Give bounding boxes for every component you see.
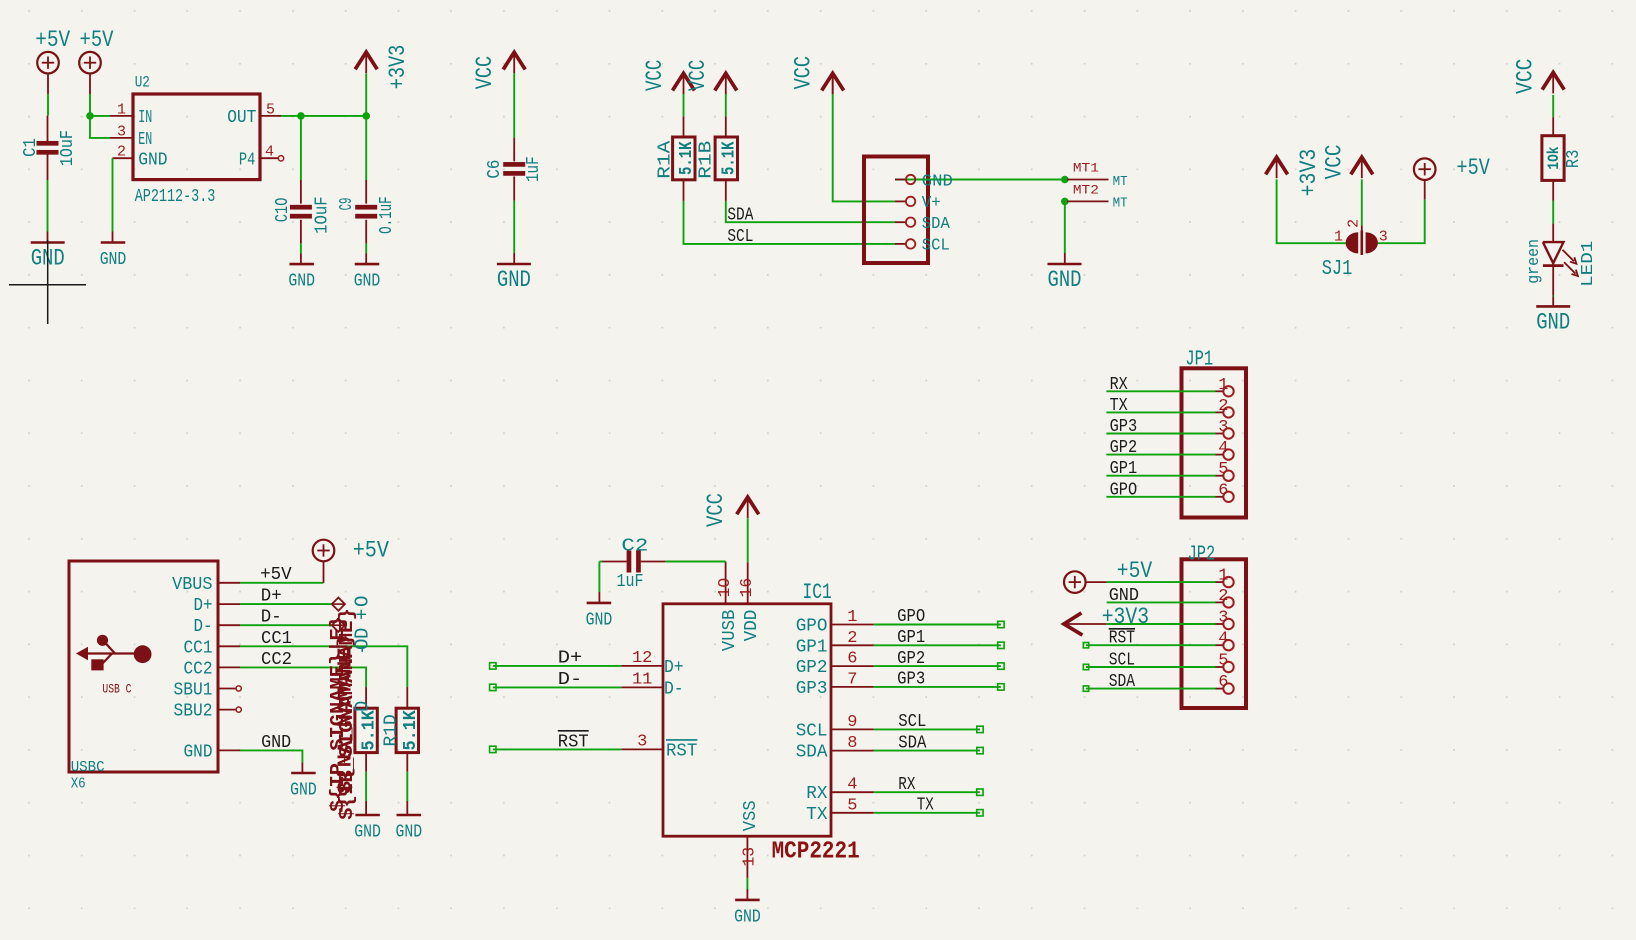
- svg-text:3: 3: [637, 732, 647, 751]
- svg-text:SDA: SDA: [1109, 672, 1135, 692]
- svg-text:GND: GND: [396, 823, 423, 843]
- svg-text:RX: RX: [898, 775, 915, 795]
- svg-text:2: 2: [117, 144, 126, 161]
- svg-text:13: 13: [741, 847, 760, 867]
- svg-text:R1A: R1A: [656, 140, 676, 178]
- svg-text:D-: D-: [664, 679, 684, 699]
- svg-text:3: 3: [1218, 609, 1228, 628]
- svg-text:C9: C9: [337, 198, 357, 211]
- svg-text:11: 11: [632, 670, 652, 689]
- svg-text:+5V: +5V: [1117, 558, 1153, 584]
- svg-text:+3V3: +3V3: [1102, 604, 1149, 630]
- svg-text:SCL: SCL: [922, 237, 950, 256]
- svg-text:MT: MT: [1113, 174, 1128, 190]
- svg-text:AP2112-3.3: AP2112-3.3: [135, 187, 216, 207]
- svg-text:RX: RX: [1110, 375, 1128, 395]
- svg-text:3: 3: [1218, 418, 1228, 437]
- svg-text:X6: X6: [71, 776, 86, 793]
- svg-text:SBU1: SBU1: [174, 681, 213, 701]
- svg-text:+3V3: +3V3: [385, 45, 411, 90]
- svg-text:1: 1: [847, 608, 857, 627]
- svg-text:CC2: CC2: [261, 650, 292, 670]
- svg-text:1: 1: [1334, 229, 1343, 246]
- svg-text:SJ1: SJ1: [1322, 258, 1353, 281]
- svg-text:GND: GND: [138, 150, 167, 170]
- svg-text:USB C: USB C: [102, 682, 131, 697]
- svg-text:2: 2: [1218, 397, 1228, 416]
- svg-text:D+: D+: [194, 596, 213, 616]
- svg-text:IN: IN: [138, 108, 152, 128]
- svg-text:1OuF: 1OuF: [313, 196, 333, 234]
- svg-text:JP1: JP1: [1185, 349, 1213, 372]
- svg-text:GP3: GP3: [796, 679, 828, 699]
- svg-text:+5V: +5V: [80, 27, 114, 53]
- svg-text:VDD: VDD: [742, 610, 762, 642]
- svg-text:VCC: VCC: [1322, 144, 1348, 179]
- svg-text:SCL: SCL: [1109, 650, 1135, 670]
- svg-text:RST: RST: [558, 732, 589, 752]
- svg-text:VCC: VCC: [642, 60, 668, 91]
- svg-text:USBC: USBC: [71, 759, 105, 776]
- svg-text:GPO: GPO: [796, 617, 828, 637]
- svg-text:C1O: C1O: [273, 198, 293, 223]
- svg-text:8: 8: [847, 734, 857, 753]
- svg-text:JP2: JP2: [1188, 544, 1216, 567]
- svg-text:D: D: [352, 701, 374, 712]
- svg-text:2: 2: [1218, 587, 1228, 606]
- svg-text:3: 3: [1379, 229, 1388, 246]
- svg-text:RX: RX: [806, 784, 827, 804]
- svg-text:P4: P4: [239, 150, 255, 170]
- svg-text:5: 5: [1218, 460, 1228, 479]
- svg-text:VCC: VCC: [790, 56, 816, 90]
- svg-text:GP3: GP3: [897, 670, 925, 690]
- svg-text:${NA_NAMANE}: ${NA_NAMANE}: [335, 634, 357, 794]
- svg-text:SDA: SDA: [796, 743, 828, 763]
- svg-text:GND: GND: [261, 733, 291, 753]
- svg-text:1: 1: [117, 101, 126, 118]
- svg-text:+: +: [352, 609, 374, 620]
- svg-text:OUT: OUT: [227, 108, 256, 128]
- svg-text:CC1: CC1: [261, 629, 292, 649]
- svg-text:R3: R3: [1564, 150, 1584, 169]
- svg-text:1uF: 1uF: [524, 156, 544, 182]
- svg-text:1: 1: [1218, 376, 1228, 395]
- svg-text:5: 5: [847, 796, 857, 815]
- svg-text:GP2: GP2: [796, 658, 828, 678]
- svg-text:VSS: VSS: [741, 800, 761, 831]
- svg-text:SCL: SCL: [898, 712, 926, 732]
- svg-text:SBU2: SBU2: [174, 702, 213, 722]
- svg-text:GP1: GP1: [1110, 459, 1138, 479]
- svg-text:GP1: GP1: [796, 637, 828, 657]
- svg-text:+5V: +5V: [353, 537, 389, 563]
- svg-text:VCC: VCC: [685, 60, 711, 91]
- svg-text:GND: GND: [922, 172, 953, 191]
- svg-text:1Ok: 1Ok: [1545, 146, 1563, 169]
- svg-text:MT: MT: [1113, 196, 1128, 212]
- svg-text:C6: C6: [485, 160, 505, 179]
- svg-text:VUSB: VUSB: [720, 609, 740, 651]
- svg-text:D: D: [352, 628, 374, 639]
- svg-text:4: 4: [1218, 439, 1228, 458]
- svg-text:VCC: VCC: [472, 56, 498, 90]
- svg-text:GND: GND: [354, 272, 381, 292]
- svg-text:GND: GND: [100, 250, 127, 270]
- svg-text:5.1K: 5.1K: [401, 710, 421, 751]
- svg-text:LED1: LED1: [1579, 241, 1598, 287]
- svg-text:GP2: GP2: [1110, 438, 1138, 458]
- svg-text:V+: V+: [922, 194, 941, 213]
- svg-text:GND: GND: [290, 781, 317, 801]
- svg-text:RST: RST: [666, 741, 697, 761]
- svg-text:TX: TX: [917, 796, 934, 816]
- svg-text:GND: GND: [497, 267, 531, 293]
- svg-text:5.1K: 5.1K: [719, 141, 739, 175]
- svg-text:GND: GND: [1048, 267, 1082, 293]
- svg-text:1: 1: [1218, 567, 1228, 586]
- svg-text:6: 6: [1218, 673, 1228, 692]
- svg-text:3: 3: [117, 123, 126, 140]
- svg-text:4: 4: [265, 144, 274, 161]
- svg-text:GND: GND: [1536, 309, 1570, 335]
- svg-text:5.1K: 5.1K: [677, 141, 697, 175]
- svg-text:GP2: GP2: [897, 649, 925, 669]
- svg-text:RST: RST: [1109, 629, 1135, 649]
- svg-text:7: 7: [847, 670, 857, 689]
- svg-text:5: 5: [266, 101, 275, 118]
- svg-text:4: 4: [1218, 630, 1228, 649]
- svg-text:GP3: GP3: [1110, 417, 1138, 437]
- svg-text:1OuF: 1OuF: [58, 130, 78, 166]
- svg-text:VBUS: VBUS: [172, 575, 212, 595]
- svg-text:MT1: MT1: [1073, 162, 1099, 176]
- svg-text:D-: D-: [261, 608, 282, 628]
- svg-text:SDA: SDA: [898, 733, 926, 753]
- svg-text:12: 12: [632, 649, 652, 668]
- svg-text:D-: D-: [558, 670, 583, 690]
- svg-text:1O: 1O: [716, 578, 735, 598]
- svg-text:GND: GND: [586, 611, 613, 631]
- svg-text:16: 16: [738, 578, 757, 598]
- svg-text:GND: GND: [734, 908, 761, 928]
- svg-text:GPO: GPO: [1110, 480, 1138, 500]
- svg-text:MCP2221: MCP2221: [772, 839, 860, 866]
- svg-text:GPO: GPO: [897, 607, 925, 627]
- svg-text:GND: GND: [1109, 586, 1139, 606]
- svg-text:D+: D+: [558, 648, 583, 668]
- svg-text:+5V: +5V: [260, 565, 292, 585]
- svg-text:U2: U2: [135, 74, 150, 92]
- svg-text:SCL: SCL: [727, 227, 753, 247]
- svg-text:C2: C2: [621, 536, 648, 556]
- svg-text:D+: D+: [261, 587, 282, 607]
- svg-text:4: 4: [847, 776, 857, 795]
- svg-text:6: 6: [1218, 481, 1228, 500]
- svg-text:SDA: SDA: [727, 206, 753, 226]
- svg-text:2: 2: [1346, 219, 1363, 228]
- svg-text:1uF: 1uF: [617, 572, 644, 592]
- svg-text:R1B: R1B: [697, 140, 717, 178]
- svg-text:TX: TX: [1110, 396, 1128, 416]
- svg-text:2: 2: [847, 629, 857, 648]
- svg-text:D-: D-: [194, 617, 213, 637]
- svg-text:+3V3: +3V3: [1296, 149, 1322, 197]
- svg-text:green: green: [1525, 239, 1544, 284]
- svg-text:-: -: [352, 644, 374, 655]
- svg-text:GND: GND: [184, 742, 213, 762]
- svg-text:R1D: R1D: [382, 714, 402, 746]
- svg-text:CC2: CC2: [184, 659, 213, 679]
- svg-text:GND: GND: [288, 272, 315, 292]
- svg-text:EN: EN: [138, 130, 152, 150]
- svg-text:9: 9: [847, 713, 857, 732]
- svg-text:+5V: +5V: [1457, 155, 1490, 181]
- svg-text:O.1uF: O.1uF: [377, 196, 397, 234]
- svg-text:SCL: SCL: [796, 721, 828, 741]
- svg-text:MT2: MT2: [1073, 183, 1099, 197]
- svg-text:TX: TX: [806, 805, 827, 825]
- svg-text:O: O: [352, 596, 374, 607]
- svg-text:5.1K: 5.1K: [360, 710, 380, 751]
- svg-text:D+: D+: [664, 658, 684, 678]
- svg-text:VCC: VCC: [703, 493, 729, 527]
- svg-text:SDA: SDA: [922, 215, 951, 234]
- svg-text:CC1: CC1: [184, 638, 213, 658]
- svg-text:6: 6: [847, 650, 857, 669]
- svg-text:IC1: IC1: [803, 580, 832, 605]
- svg-text:C1: C1: [21, 138, 41, 157]
- svg-text:5: 5: [1218, 652, 1228, 671]
- svg-text:+5V: +5V: [35, 27, 70, 53]
- svg-text:VCC: VCC: [1513, 59, 1539, 95]
- svg-text:GND: GND: [354, 823, 381, 843]
- svg-text:GP1: GP1: [897, 628, 925, 648]
